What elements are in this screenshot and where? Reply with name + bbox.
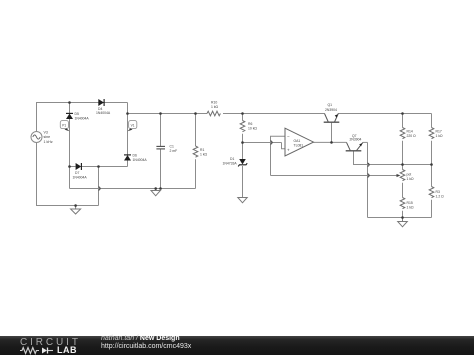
svg-text:−: −: [287, 134, 290, 139]
wire main rail y113.5: [128, 113, 208, 115]
wire zener node to opamp plus: [243, 142, 282, 144]
resistor R17: [429, 128, 434, 139]
svg-text:R6: R6: [248, 122, 252, 126]
resistor R3: [429, 187, 434, 198]
voltage source V3: [31, 132, 42, 143]
svg-text:1N4004A: 1N4004A: [133, 158, 148, 162]
transistor Q1: [324, 114, 340, 123]
svg-text:1N4733A: 1N4733A: [223, 161, 238, 165]
ground (cap rail): [151, 189, 160, 196]
svg-text:1 kΩ: 1 kΩ: [436, 134, 444, 138]
svg-text:R14: R14: [407, 129, 413, 133]
svg-text:D7: D7: [75, 171, 79, 175]
wire zener to ground: [242, 166, 244, 198]
svg-text:1 kΩ: 1 kΩ: [211, 105, 219, 109]
wire Q7 emitter vertical: [367, 142, 369, 217]
wire hop marks: [99, 141, 370, 190]
wire branch R14 pot R15: [402, 114, 404, 128]
svg-text:1N4004A: 1N4004A: [96, 111, 111, 115]
svg-text:R3: R3: [436, 190, 440, 194]
svg-text:+: +: [287, 148, 290, 153]
circuitlab logo: [20, 337, 81, 348]
zener diode D1: [238, 159, 247, 166]
diode D4: [98, 99, 104, 106]
potentiometer pot: [400, 170, 405, 181]
svg-text:R15: R15: [407, 201, 413, 205]
svg-text:1 kΩ: 1 kΩ: [200, 153, 208, 157]
svg-text:R10: R10: [211, 100, 217, 104]
wire bridge left vertical: [69, 103, 71, 114]
svg-text:1N4004A: 1N4004A: [75, 116, 90, 120]
svg-text:D6: D6: [133, 154, 137, 158]
svg-text:V3: V3: [44, 131, 48, 135]
wire bridge bottom-left horizontal: [70, 188, 196, 190]
wire R6 top: [242, 114, 244, 121]
svg-text:P1: P1: [62, 123, 66, 127]
diode D7: [76, 163, 82, 170]
wire cap top: [160, 114, 162, 147]
wire branch R17 R3: [431, 114, 433, 128]
wire Q7 emitter to right: [363, 141, 368, 143]
wire bridge right vertical: [127, 103, 129, 156]
svg-text:R17: R17: [436, 129, 442, 133]
diode D6: [124, 155, 131, 161]
svg-text:D1: D1: [230, 157, 234, 161]
transistor Q7: [346, 142, 363, 150]
svg-text:2N3904: 2N3904: [350, 138, 362, 142]
footer bar: [0, 336, 474, 355]
svg-text:R1: R1: [200, 148, 204, 152]
svg-text:Q1: Q1: [328, 103, 333, 107]
svg-text:TL081: TL081: [294, 143, 304, 147]
node flag P1: [60, 121, 69, 132]
svg-text:C1: C1: [170, 144, 174, 148]
wire R1 top: [195, 114, 197, 147]
svg-text:1.2 Ω: 1.2 Ω: [436, 195, 445, 199]
svg-text:10 kΩ: 10 kΩ: [248, 127, 257, 131]
wire opamp output: [314, 141, 347, 143]
resistor R14: [400, 128, 405, 139]
wire source left vertical bottom: [36, 143, 38, 206]
resistor R1: [193, 146, 198, 157]
wire feedback rail y175.7: [271, 175, 398, 177]
diode D5: [66, 113, 73, 119]
svg-text:2N3904: 2N3904: [325, 108, 337, 112]
wire R6 bottom: [242, 134, 244, 143]
svg-text:1 kΩ: 1 kΩ: [407, 177, 415, 181]
svg-text:V1: V1: [131, 123, 135, 127]
wire Q7 base down and right: [354, 151, 432, 165]
wire cap bottom: [160, 149, 162, 188]
wire Q1 emitter rail: [338, 113, 432, 115]
resistor R15: [400, 198, 405, 209]
ground (zener): [238, 198, 247, 203]
svg-text:2 mF: 2 mF: [170, 149, 178, 153]
resistor R6: [240, 121, 245, 132]
svg-text:OA1: OA1: [294, 139, 301, 143]
capacitor C1: [156, 146, 165, 149]
wire Q1 base vertical: [331, 123, 333, 143]
ground (right): [398, 218, 408, 227]
svg-text:pot: pot: [407, 172, 412, 176]
svg-text:1 kΩ: 1 kΩ: [407, 206, 415, 210]
op-amp OA1: [285, 128, 314, 156]
svg-text:220 Ω: 220 Ω: [407, 134, 417, 138]
svg-text:1N4004A: 1N4004A: [73, 175, 88, 179]
svg-text:1 kHz: 1 kHz: [44, 140, 53, 144]
ground (source): [71, 206, 81, 215]
svg-text:D5: D5: [75, 112, 79, 116]
wire R1 bottom: [195, 159, 197, 188]
wire zener top: [242, 143, 244, 160]
wire source left vertical top: [36, 103, 38, 132]
resistor R10: [207, 111, 220, 116]
wire bridge center vertical: [98, 167, 100, 206]
wire top rail left: [36, 102, 128, 104]
svg-text:sine: sine: [44, 135, 51, 139]
wire bridge mid horizontal y166: [70, 166, 76, 168]
wire bottom rail right: [368, 217, 432, 219]
wire bottom source rail: [36, 205, 99, 207]
node flag V1: [128, 121, 137, 132]
wire opamp minus input: [271, 136, 286, 175]
